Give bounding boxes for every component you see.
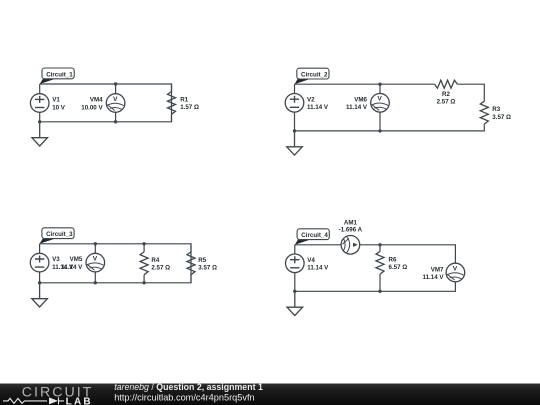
svg-text:-1.696 A: -1.696 A [339,227,363,234]
svg-text:V3: V3 [52,256,60,263]
svg-text:V: V [377,96,382,103]
svg-text:R3: R3 [492,106,500,113]
svg-text:R1: R1 [180,97,188,104]
svg-text:11.14 V: 11.14 V [61,264,83,271]
svg-text:6.57 Ω: 6.57 Ω [389,264,408,271]
svg-text:11.14 V: 11.14 V [346,104,368,111]
svg-text:V: V [113,96,118,103]
svg-text:R4: R4 [151,257,159,264]
svg-text:Circuit_4: Circuit_4 [301,232,328,239]
svg-text:11.14 V: 11.14 V [307,265,329,272]
svg-text:Circuit_1: Circuit_1 [46,71,73,78]
svg-text:V2: V2 [307,96,315,103]
svg-text:10 V: 10 V [52,104,66,111]
svg-text:V: V [453,265,458,272]
svg-text:Circuit_3: Circuit_3 [46,231,73,238]
svg-text:AM1: AM1 [344,220,358,227]
svg-text:LAB: LAB [66,397,93,405]
svg-text:2.57 Ω: 2.57 Ω [437,99,456,106]
svg-text:10.00 V: 10.00 V [81,104,103,111]
svg-text:3.57 Ω: 3.57 Ω [492,114,511,121]
svg-text:VM4: VM4 [90,97,103,104]
svg-text:11.14 V: 11.14 V [423,274,445,281]
svg-text:R5: R5 [198,257,206,264]
svg-text:1.57 Ω: 1.57 Ω [180,104,199,111]
svg-text:11.14 V: 11.14 V [307,104,329,111]
svg-text:tarenebg / Question 2, assignm: tarenebg / Question 2, assignment 1 [114,382,263,392]
svg-text:3.57 Ω: 3.57 Ω [198,265,217,272]
svg-text:VM7: VM7 [431,266,444,273]
svg-text:R2: R2 [442,91,450,98]
svg-text:V1: V1 [52,97,60,104]
svg-text:http://circuitlab.com/c4r4pn5r: http://circuitlab.com/c4r4pn5rq5vfn [114,392,254,402]
svg-text:Circuit_2: Circuit_2 [301,72,328,79]
svg-text:VM5: VM5 [70,256,83,263]
svg-text:VM6: VM6 [354,96,367,103]
svg-text:R6: R6 [389,256,397,263]
svg-text:V4: V4 [307,257,315,264]
svg-text:2.57 Ω: 2.57 Ω [151,265,170,272]
svg-text:V: V [93,256,98,263]
